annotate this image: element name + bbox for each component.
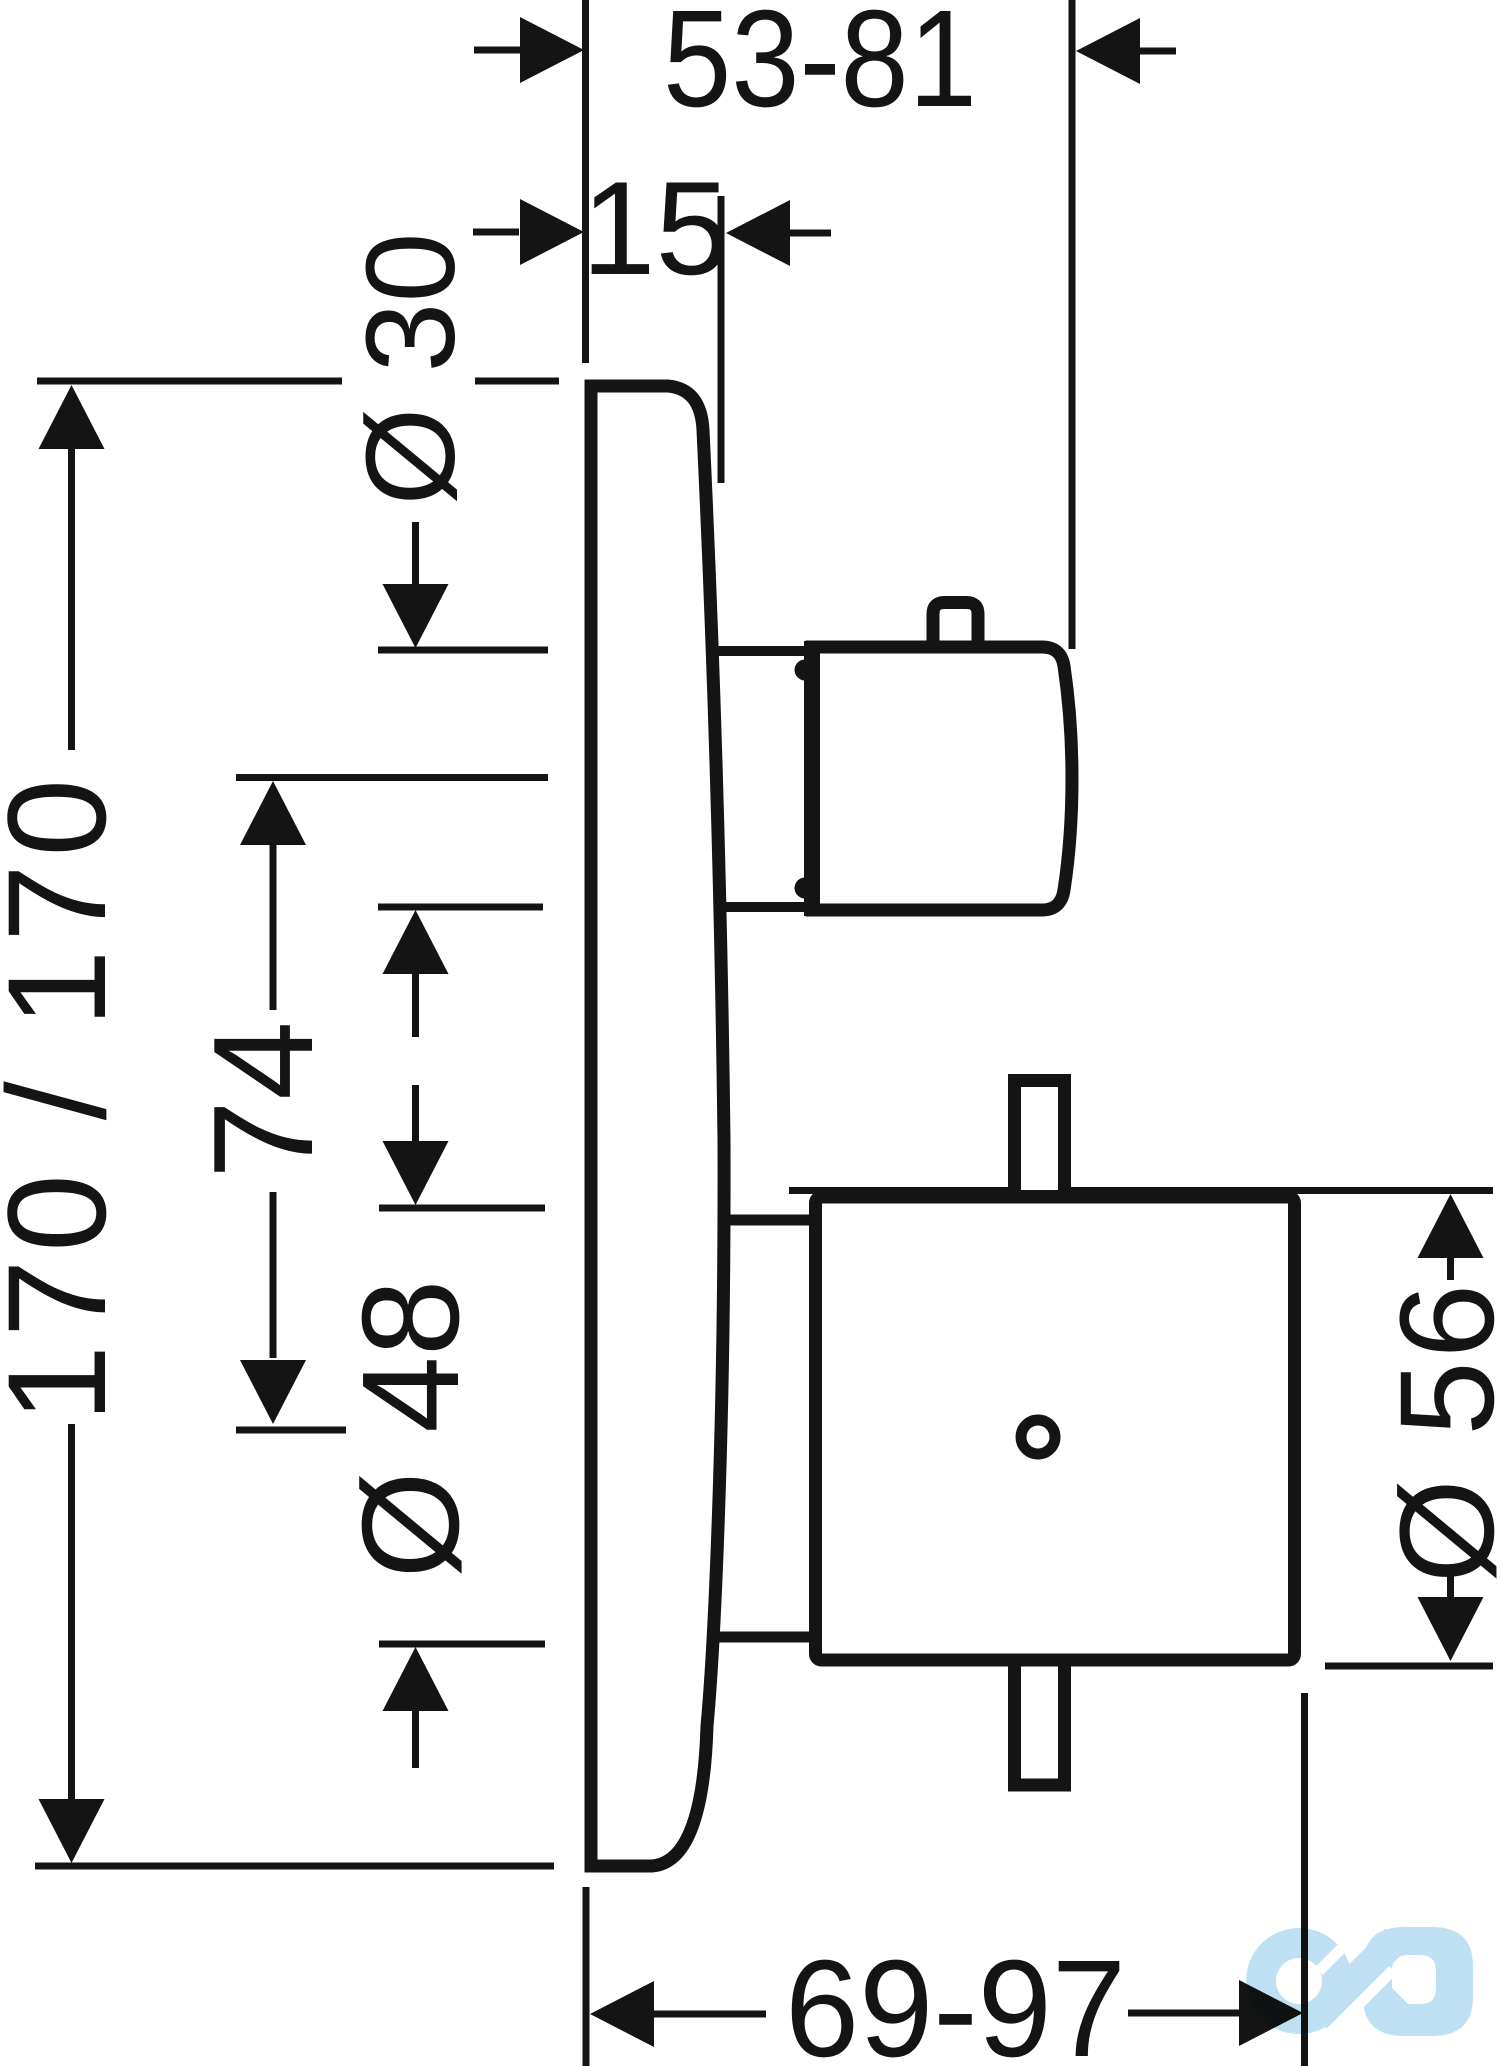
svg-text:Ø 56: Ø 56: [1373, 1281, 1500, 1584]
svg-text:170 / 170: 170 / 170: [0, 771, 135, 1422]
svg-text:53-81: 53-81: [663, 0, 977, 136]
svg-text:Ø 30: Ø 30: [340, 232, 481, 505]
svg-text:74: 74: [184, 1021, 343, 1179]
svg-text:69-97: 69-97: [785, 1932, 1126, 2066]
svg-text:Ø 48: Ø 48: [334, 1279, 488, 1578]
svg-text:15: 15: [582, 155, 730, 303]
